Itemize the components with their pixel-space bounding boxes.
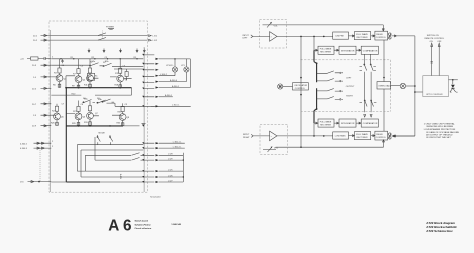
svg-text:+24: +24	[20, 59, 24, 61]
wire: feedback top left channel	[276, 25, 385, 31]
wire bus feed to rectifier	[314, 36, 318, 51]
terminal 1.6	[33, 76, 51, 79]
svg-text:20.9: 20.9	[32, 126, 37, 128]
svg-text:20.1: 20.1	[33, 36, 38, 38]
svg-text:R18: R18	[115, 85, 120, 87]
svg-text:Schalter-Platine: Schalter-Platine	[135, 223, 152, 226]
block: comparator (lower)	[361, 119, 378, 127]
node: input left terminal	[243, 35, 253, 40]
wire: row y155.3 with switch	[95, 153, 143, 156]
svg-text:1.8: 1.8	[33, 115, 37, 117]
svg-text:RECTIFIER: RECTIFIER	[320, 124, 331, 126]
resistor R16	[119, 68, 122, 73]
svg-text:Q5: Q5	[61, 117, 65, 119]
wire Q8 connections	[112, 103, 123, 125]
terminal 20.9	[32, 125, 51, 128]
svg-text:TAPE: TAPE	[120, 173, 123, 179]
svg-text:R3: R3	[54, 73, 58, 75]
svg-text:S2b: S2b	[105, 61, 109, 63]
block: full wave rectifier (row1 lower)	[318, 119, 334, 127]
board right pins column	[142, 54, 144, 183]
lamp: overload indicator	[400, 83, 405, 88]
svg-text:FULL WAVE: FULL WAVE	[320, 48, 332, 51]
svg-text:1.6: 1.6	[33, 77, 37, 79]
wire: heavy bus lower	[66, 125, 123, 127]
svg-text:RELAY: RELAY	[376, 33, 383, 36]
transistor Q2	[73, 74, 82, 83]
switch S2a	[89, 62, 103, 67]
svg-text:R7: R7	[73, 74, 77, 76]
op-amp U1	[270, 32, 277, 42]
svg-text:LEFT: LEFT	[243, 38, 249, 40]
emitter resistors row upper	[58, 84, 121, 88]
svg-text:R23: R23	[52, 111, 57, 113]
terminal 170	[20, 181, 51, 184]
svg-text:INPUT: INPUT	[243, 35, 250, 37]
phototransistor Q9	[450, 80, 458, 92]
svg-text:AT OUTPUT OF THE A722: AT OUTPUT OF THE A722	[426, 133, 453, 136]
lamp LP1	[166, 59, 178, 72]
input left amp box (dashed)	[260, 19, 287, 48]
wire + arrow to relay control lower	[371, 135, 375, 137]
resistor R28	[77, 106, 80, 111]
board outline A6 (dashed)	[49, 21, 148, 192]
lamp supply wire	[159, 58, 191, 60]
lamp: stereo indicator	[278, 84, 283, 89]
wire: left channel signal	[277, 35, 333, 37]
svg-text:1 ONLY USED ON POTENTIAL: 1 ONLY USED ON POTENTIAL	[424, 123, 456, 126]
wire lamp to oscillator control	[283, 86, 293, 88]
svg-text:CONTROL: CONTROL	[376, 37, 387, 39]
junction dots row	[65, 87, 67, 89]
input right amp box (dashed)	[260, 124, 288, 154]
svg-text:RELAY: RELAY	[376, 133, 383, 136]
resistor R4	[58, 68, 61, 73]
svg-text:S3a: S3a	[84, 99, 88, 101]
svg-text:A722 Schéma bloc: A722 Schéma bloc	[426, 229, 453, 233]
svg-text:A 300.1: A 300.1	[172, 85, 180, 88]
svg-text:R6: R6	[53, 85, 56, 87]
wire Q7 connections	[90, 101, 99, 126]
wire: row y182 heavy	[66, 181, 100, 183]
pin rail right	[143, 47, 145, 192]
resistor R17	[125, 72, 128, 77]
op-amp U2	[270, 131, 277, 141]
wire + arrow to comparator	[356, 49, 361, 51]
svg-text:ON: ON	[430, 41, 434, 43]
wire: pin-to-arrow stubs right	[143, 55, 154, 182]
svg-text:FULL WAVE: FULL WAVE	[356, 33, 368, 36]
wire: mains line 2	[33, 38, 158, 43]
svg-text:Q4: Q4	[125, 79, 129, 81]
svg-text:INTEGRATOR: INTEGRATOR	[341, 49, 355, 52]
svg-text:Q7: Q7	[95, 113, 99, 115]
wire Q1 connections	[51, 59, 59, 88]
svg-text:20.5: 20.5	[32, 88, 37, 90]
svg-text:S2a: S2a	[92, 61, 96, 63]
wire: row y65.5 left	[51, 64, 89, 66]
svg-text:C8: C8	[81, 104, 84, 106]
resistor R30	[88, 106, 91, 111]
svg-text:RECTIFIER: RECTIFIER	[357, 37, 368, 39]
wire + arrow to integrator lower	[334, 122, 339, 124]
block: oscillator control	[293, 83, 309, 90]
remote control arrow on	[431, 43, 433, 76]
svg-text:C9: C9	[125, 104, 128, 106]
svg-text:OPTO COUPLER: OPTO COUPLER	[426, 94, 443, 96]
wire: bus vertical (thick)	[314, 50, 317, 123]
switch S5 pair	[97, 133, 113, 145]
junction dots bus	[316, 62, 318, 64]
svg-text:CONTROL: CONTROL	[295, 88, 306, 90]
svg-text:LOUDSPEAKER PROTECTION: LOUDSPEAKER PROTECTION	[424, 128, 456, 131]
svg-text:C5: C5	[81, 66, 84, 68]
wire + arrow to integrator	[334, 49, 339, 51]
svg-text:LP101 L: LP101 L	[166, 65, 175, 67]
wire: link 148 to 170 row	[39, 148, 41, 182]
svg-text:2: 2	[52, 141, 54, 143]
capacitor C01	[44, 57, 45, 60]
svg-text:Tonschalter: Tonschalter	[150, 196, 161, 199]
svg-text:COMPARATOR: COMPARATOR	[363, 49, 378, 52]
svg-text:Q8: Q8	[127, 117, 131, 119]
resistor R10	[88, 68, 91, 73]
svg-text:Q2: Q2	[83, 80, 87, 82]
label cluster upper transistors	[53, 65, 128, 88]
potentiometer P1	[263, 22, 279, 27]
svg-text:FULL WAVE: FULL WAVE	[320, 120, 332, 123]
wire: row y177	[89, 176, 143, 178]
relay K1 box	[87, 73, 94, 80]
svg-text:RECTIFIER: RECTIFIER	[320, 52, 331, 54]
right label row y96.8	[159, 94, 173, 97]
right terminal arrows column	[156, 58, 159, 183]
node: supply entry +24V row	[20, 57, 51, 61]
svg-text:IN CASE OF VOLTAGE FAILURE: IN CASE OF VOLTAGE FAILURE	[426, 131, 459, 134]
svg-text:RIGHT: RIGHT	[243, 137, 250, 139]
wire lamp2 return	[159, 72, 187, 82]
svg-text:INTEGRATOR: INTEGRATOR	[341, 122, 355, 125]
svg-text:OUTPUT: OUTPUT	[346, 86, 355, 88]
svg-text:1.068.140: 1.068.140	[171, 223, 181, 226]
comparator link switch left	[360, 54, 367, 112]
svg-text:L 300.2: L 300.2	[160, 74, 168, 76]
wire: row y103 to right	[109, 103, 143, 106]
svg-text:>: >	[271, 35, 273, 38]
wire: matrix stub verticals	[95, 145, 132, 160]
svg-text:VERSIONS WILL BE FREE: VERSIONS WILL BE FREE	[426, 126, 453, 128]
svg-text:L 30.5 L: L 30.5 L	[172, 105, 180, 107]
transistor Q4	[115, 73, 124, 82]
label cluster lower transistors	[51, 104, 130, 126]
svg-text:CONTROL: CONTROL	[376, 137, 387, 139]
wire: relay2 to loop with arrow	[392, 135, 415, 137]
svg-text:COMPARATOR: COMPARATOR	[363, 122, 378, 125]
transistor Q8	[118, 111, 127, 120]
block: integrator (left ch)	[339, 46, 356, 54]
wire lamp1 return	[159, 72, 175, 76]
wire: row y66.5 to right pins	[114, 66, 143, 69]
wire + arrow to comparator lower	[356, 122, 361, 124]
wire: top rail	[51, 58, 143, 60]
svg-text:20.7: 20.7	[32, 104, 37, 106]
block: relay control (left ch)	[375, 31, 388, 40]
svg-text:VOL: VOL	[274, 26, 279, 28]
svg-text:LP1: LP1	[181, 65, 186, 67]
svg-text:OFF: OFF	[437, 41, 442, 43]
wire + arrow to FWR1	[349, 35, 355, 37]
terminal 20.7	[32, 103, 51, 106]
switch matrix branch 2	[317, 79, 355, 88]
resistor R01	[31, 57, 39, 60]
node: input right terminal	[243, 134, 253, 139]
svg-text:Q6: Q6	[83, 117, 87, 119]
block: integrator (lower)	[339, 119, 356, 127]
terminal 20.5	[32, 87, 51, 90]
wire: left verticals lower matrix	[77, 137, 110, 177]
block: full wave rectifier (left ch main)	[354, 32, 370, 40]
wire right bottom loop	[159, 59, 191, 88]
resistor R24	[55, 106, 58, 111]
svg-text:LEFT: LEFT	[346, 77, 352, 79]
svg-text:R25: R25	[51, 123, 56, 125]
svg-text:LIM PRE: LIM PRE	[336, 36, 345, 38]
svg-text:K1: K1	[95, 76, 98, 78]
terminal 20.3	[32, 64, 51, 67]
svg-text:MODE: MODE	[99, 133, 106, 135]
board top pins row	[88, 49, 145, 53]
block: comparator (left ch)	[361, 46, 378, 54]
note text	[424, 123, 460, 139]
wire bus feed lower rectifier	[314, 122, 318, 136]
resistor R8	[77, 69, 80, 74]
block: low pass	[333, 132, 349, 139]
svg-text:L 300.4 L: L 300.4 L	[173, 147, 182, 149]
svg-text:20.3: 20.3	[32, 65, 37, 67]
svg-text:R29: R29	[72, 123, 77, 125]
wire: mains line 1	[33, 33, 158, 38]
right label rows mid	[156, 142, 185, 144]
block: full wave rectifier (right ch main)	[354, 132, 370, 140]
svg-text:R31: R31	[84, 122, 89, 124]
comparator link switch right	[370, 54, 376, 112]
svg-text:A 300.4: A 300.4	[170, 79, 178, 82]
switch matrix branch 4	[317, 97, 343, 101]
wire: relay1 out with arrow	[392, 35, 415, 37]
wire: row y95	[51, 88, 131, 96]
junction dots lower bus	[78, 125, 80, 127]
svg-text:REMOTE CONTROL: REMOTE CONTROL	[425, 38, 445, 40]
pin rail left	[49, 30, 51, 192]
relay contact K2	[389, 133, 392, 139]
ground board	[142, 123, 146, 125]
emitter resistors row lower	[56, 122, 124, 126]
svg-text:A 300.1: A 300.1	[165, 94, 173, 97]
svg-text:L 300.1 L: L 300.1 L	[173, 142, 182, 144]
remote control arrow off	[438, 43, 440, 76]
switch S3b	[97, 98, 110, 103]
wire Q5 connections	[51, 104, 57, 126]
svg-text:Q1: Q1	[64, 79, 68, 81]
svg-text:RECTIFIER: RECTIFIER	[357, 137, 368, 139]
transistor Q3	[87, 75, 94, 82]
capacitor on remote line	[431, 62, 433, 64]
switch matrix branch 3	[317, 89, 354, 98]
wire: right stub L30.5	[151, 105, 191, 108]
vertical relay feed left ch	[383, 40, 385, 82]
dashed boundary left channel	[301, 60, 391, 112]
svg-text:>: >	[271, 135, 273, 138]
switch S2b	[103, 62, 116, 67]
svg-text:170: 170	[20, 182, 24, 184]
wire: row y150	[81, 149, 143, 151]
svg-text:2: 2	[52, 146, 54, 148]
svg-text:L 6/1: L 6/1	[153, 36, 158, 38]
svg-text:2: 2	[52, 57, 54, 59]
svg-text:C7: C7	[62, 104, 65, 106]
wire: right channel signal	[277, 135, 333, 137]
wire: row y125.9 tail	[123, 125, 140, 127]
relay contact K1	[389, 33, 392, 39]
switch pair lower channel	[360, 100, 377, 107]
switch matrix branch LEFT	[317, 71, 353, 79]
wire overload to lamp	[391, 84, 400, 86]
row2 left ch: rectifier box	[318, 46, 334, 54]
lamp LP2	[181, 59, 189, 72]
wire: center vertical interconnect	[300, 36, 302, 147]
switch S1 POWER label	[103, 27, 115, 40]
wire: input left to amp	[253, 35, 270, 37]
block: lim pre (left ch)	[333, 32, 349, 39]
potentiometer P2	[263, 147, 279, 152]
svg-text:FULL WAVE: FULL WAVE	[356, 133, 368, 136]
wire: heavy bus vertical	[65, 88, 67, 182]
transistor Q5	[52, 111, 60, 120]
switch S4a	[102, 99, 115, 102]
block: opto coupler	[423, 76, 449, 97]
svg-text:RIGHT: RIGHT	[346, 96, 353, 98]
junction dots on top rail	[60, 58, 61, 59]
wire: row y171.1	[85, 170, 143, 172]
capacitor C02	[61, 59, 63, 63]
wire: heavy bus horizontal upper	[66, 87, 131, 89]
wire: opto output	[449, 79, 458, 81]
resistor R34	[121, 107, 124, 112]
svg-text:Switch board: Switch board	[135, 220, 149, 223]
block: relay control (right ch)	[375, 131, 388, 140]
svg-text:R11: R11	[84, 85, 88, 87]
wire: loop to opto coupler	[415, 91, 423, 93]
wire lamp to loop	[406, 85, 415, 87]
wire: input right to amp	[253, 135, 269, 137]
wire Q4 connections	[110, 59, 132, 88]
transistor Q7	[87, 112, 94, 119]
svg-text:LOW PASS: LOW PASS	[335, 135, 346, 138]
transistor Q6	[73, 111, 82, 120]
svg-text:4.300.2: 4.300.2	[20, 143, 28, 145]
block: overload	[377, 82, 391, 89]
wire: right loop vertical	[414, 36, 416, 136]
svg-text:A 6: A 6	[108, 217, 131, 234]
svg-text:OVERLOAD: OVERLOAD	[378, 84, 390, 87]
wire + arrow to FWR lower main	[349, 135, 355, 137]
wire Q3 connections	[90, 59, 98, 88]
dashed boundary right channel	[301, 111, 391, 113]
svg-text:4.300.3: 4.300.3	[20, 148, 28, 150]
right label rows lower with bracket	[159, 153, 184, 156]
wire: row y182 tail	[51, 181, 143, 183]
wire: feedback bottom right channel	[276, 140, 385, 147]
svg-text:VOL: VOL	[274, 148, 279, 150]
svg-text:R35: R35	[117, 123, 122, 125]
wire: row y144.7	[77, 144, 143, 146]
arrows into comparator (lower)	[364, 115, 372, 118]
svg-text:IN CIRCUIT AT THE SET: IN CIRCUIT AT THE SET	[426, 136, 451, 139]
remote control labels	[425, 35, 445, 43]
wire Q2 connections	[66, 59, 79, 88]
vertical relay feed lower ch	[383, 89, 385, 131]
svg-text:Circuit sélecteur: Circuit sélecteur	[135, 227, 152, 230]
terminal 1.8	[33, 114, 51, 117]
transistor Q1	[54, 73, 63, 82]
wire Q6 connections	[66, 101, 78, 126]
wire: loop bottom corner	[392, 135, 415, 137]
svg-text:SWITCH ON: SWITCH ON	[427, 35, 439, 37]
label switch S4	[84, 61, 109, 101]
svg-text:20.2: 20.2	[33, 40, 38, 42]
wire: row y160.1 with switch	[95, 158, 143, 161]
switch S3a	[83, 98, 96, 103]
terminal 4.300.3	[20, 147, 51, 150]
svg-text:S3b: S3b	[98, 99, 102, 101]
terminal 4.300.2	[20, 142, 51, 145]
wire + arrow to relay control 1	[371, 35, 375, 37]
svg-text:INPUT: INPUT	[243, 134, 250, 136]
svg-text:L 6/2: L 6/2	[153, 40, 158, 42]
svg-text:OSCILLATOR: OSCILLATOR	[294, 84, 307, 87]
